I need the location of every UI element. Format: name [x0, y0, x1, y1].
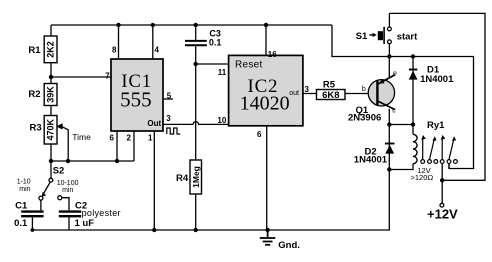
S2 contact C1 side — [39, 196, 43, 200]
svg-text:S1: S1 — [356, 31, 368, 42]
svg-text:1N4001: 1N4001 — [420, 74, 454, 85]
wire R2-R3 link — [50, 106, 52, 116]
wire pot wiper — [62, 126, 69, 161]
wire relay contact5 L — [448, 163, 450, 168]
wire C1 top lead — [40, 200, 42, 210]
capacitor C2 plates — [59, 212, 81, 217]
IC1 555 body — [111, 59, 163, 131]
transistor Q1 emitter — [378, 75, 395, 84]
svg-text:R2: R2 — [28, 89, 40, 100]
svg-text:2N3906: 2N3906 — [348, 113, 381, 124]
svg-text:>120Ω: >120Ω — [411, 173, 434, 182]
svg-text:6K8: 6K8 — [322, 90, 339, 101]
wire top rail — [51, 24, 332, 26]
wire R3 bottom lead — [50, 144, 52, 161]
svg-text:3: 3 — [166, 114, 171, 123]
wire ground rail — [32, 170, 389, 231]
svg-text:Time: Time — [72, 132, 91, 142]
wire C3 top lead — [195, 25, 197, 40]
svg-text:14020: 14020 — [240, 92, 290, 114]
wire collector to coil top — [389, 124, 413, 126]
transistor Q1 emitter arrow (PNP) — [379, 79, 385, 84]
switch S2 arm arrow — [42, 192, 47, 197]
wire C2 bottom lead — [68, 217, 70, 230]
wire pin16 IC2 — [265, 25, 267, 55]
wire IC2 pin3 to R5 — [303, 93, 317, 95]
relay arm 4 — [449, 140, 454, 160]
wire R1 top lead — [50, 25, 52, 36]
wire pin1 IC1 to ground — [153, 131, 155, 230]
svg-text:1: 1 — [148, 134, 153, 143]
wire collector drop — [388, 109, 390, 170]
svg-text:6: 6 — [110, 134, 115, 143]
svg-text:min: min — [19, 186, 30, 193]
S1 pointer arrow — [369, 34, 373, 36]
wire pin4 IC1 — [152, 25, 154, 59]
svg-text:0.1: 0.1 — [14, 218, 28, 229]
wire relay contact4 to +12V — [441, 163, 443, 203]
relay coil Ry1 — [413, 134, 417, 163]
svg-text:2K2: 2K2 — [46, 41, 56, 58]
svg-text:start: start — [397, 32, 418, 43]
wire pin7 IC1 — [51, 76, 111, 78]
wire C1 bottom lead — [31, 217, 33, 230]
wire S1 bottom lead — [388, 44, 390, 57]
resistor R5 — [317, 90, 346, 100]
svg-text:out: out — [289, 90, 299, 97]
resistor R3 — [44, 116, 57, 145]
svg-text:10-100: 10-100 — [57, 180, 79, 187]
svg-text:7: 7 — [105, 71, 110, 80]
svg-text:16: 16 — [268, 50, 277, 59]
svg-text:5: 5 — [167, 91, 172, 100]
svg-text:R4: R4 — [176, 173, 189, 184]
transistor Q1 collector — [378, 101, 395, 110]
svg-text:S2: S2 — [53, 166, 65, 177]
resistor R2 — [44, 84, 57, 106]
svg-text:11: 11 — [218, 68, 227, 77]
relay arm 1 — [422, 139, 424, 159]
pushbutton S1 — [378, 31, 383, 40]
diode D1 — [409, 69, 417, 71]
IC2 14020 body — [229, 55, 303, 125]
wire IC1 pin3 to IC2 pin10 — [163, 122, 229, 125]
wire C3 bottom to R4 — [195, 46, 197, 160]
svg-text:polyester: polyester — [82, 208, 121, 218]
capacitor C1 plates — [21, 212, 43, 217]
wire D1 column — [412, 57, 414, 135]
svg-text:R1: R1 — [28, 45, 41, 56]
svg-text:Out: Out — [147, 119, 161, 128]
wire R4 bottom lead — [195, 194, 197, 230]
svg-text:R5: R5 — [323, 79, 336, 90]
svg-text:3: 3 — [305, 85, 310, 94]
svg-text:2: 2 — [127, 134, 132, 143]
svg-text:10: 10 — [217, 116, 226, 125]
wire pin2 IC1 — [133, 131, 135, 161]
svg-text:0.1: 0.1 — [209, 38, 222, 48]
svg-text:1Meg: 1Meg — [191, 166, 201, 188]
svg-text:c: c — [392, 108, 396, 115]
svg-text:+12V: +12V — [427, 207, 458, 222]
+12V terminal — [440, 203, 444, 207]
transistor Q1 body — [368, 80, 394, 106]
svg-text:Ry1: Ry1 — [427, 120, 445, 131]
pot wiper arrow R3 — [57, 124, 63, 130]
svg-text:1 uF: 1 uF — [75, 218, 95, 229]
svg-text:4: 4 — [155, 46, 160, 55]
wire junction row to pin2 — [51, 160, 134, 162]
resistor R4 — [190, 160, 202, 194]
svg-text:Reset: Reset — [235, 59, 263, 70]
wire pin5 stub — [164, 98, 173, 100]
wire coil bottom — [389, 164, 413, 170]
relay arm 3 — [441, 139, 443, 159]
diode D2 — [385, 143, 395, 145]
svg-text:R3: R3 — [30, 123, 42, 134]
transistor Q1 base bar — [376, 80, 378, 105]
svg-text:470K: 470K — [46, 119, 56, 141]
switch S2 common — [49, 178, 53, 182]
svg-text:8: 8 — [112, 46, 117, 55]
wire right rail 2 (V+ switched) — [332, 25, 474, 169]
waveform symbol at IC1 out — [167, 128, 180, 134]
svg-text:C1: C1 — [15, 201, 28, 212]
wire pin6 IC2 to ground — [266, 126, 268, 230]
wire R5 to base — [345, 93, 376, 95]
svg-text:39K: 39K — [46, 86, 56, 103]
svg-text:6: 6 — [257, 130, 262, 139]
svg-text:1-10: 1-10 — [17, 179, 31, 186]
wire pin8 IC1 — [118, 25, 120, 59]
relay contact terminals — [421, 160, 457, 164]
wire pin11 IC2 — [196, 63, 229, 65]
S2 contact C2 side — [58, 196, 62, 200]
relay arm 2 — [430, 140, 435, 160]
resistor R1 — [44, 36, 57, 63]
svg-text:e: e — [393, 71, 397, 78]
svg-text:b: b — [362, 86, 366, 93]
capacitor C3 plates — [185, 41, 207, 45]
wire S2 drop — [50, 161, 52, 178]
wire top right loop — [389, 13, 485, 180]
wire pin6 IC1 — [116, 131, 118, 161]
ground symbol — [260, 230, 276, 245]
wire R1-R2 link — [50, 63, 52, 84]
wire S1 top lead — [388, 13, 390, 27]
svg-text:1N4001: 1N4001 — [354, 155, 388, 166]
svg-text:555: 555 — [120, 88, 152, 112]
svg-text:Gnd.: Gnd. — [278, 240, 300, 251]
wire S2 arm — [44, 182, 51, 193]
wire emitter drop — [388, 57, 390, 78]
svg-text:min: min — [62, 187, 73, 194]
wire C2 top lead — [62, 198, 69, 211]
